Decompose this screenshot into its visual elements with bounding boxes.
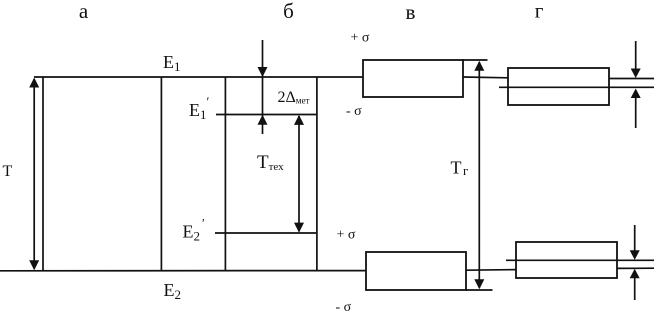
dimension arrow T-g (double-headed, tall, x=479) [474, 61, 484, 289]
rectangle zone v bottom (-sigma band) [366, 252, 466, 290]
svg-text:б: б [283, 0, 294, 23]
wire bottom line E2 level (between rect v-bottom and rect g-bottom) [466, 269, 516, 272]
wire top line E1 level (between rect v-top and rect g-top) [463, 76, 508, 79]
svg-text:а: а [79, 0, 89, 23]
wire top line E1 level (left span) [34, 76, 363, 78]
dimension arrow T (double-headed, left) [29, 78, 39, 271]
wire vertical divider x=161 (right edge of zone a) [160, 77, 162, 271]
wire extension of bottom edge of zone v bottom rect [466, 289, 493, 291]
wire bottom line E2 level (right of rect g-bottom) [617, 267, 654, 269]
wire E2' level line [215, 232, 316, 234]
wire E1' level line [216, 114, 317, 116]
dimension arrow T-tech (double-headed, between E1' and E2') [294, 115, 304, 233]
rectangle zone g top (shifted part field) [508, 68, 609, 105]
rectangle zone g bottom (shifted part field) [516, 242, 617, 278]
dimension arrows 2-delta-met (down onto E1 line, up onto E1' line) [258, 40, 268, 134]
wire top line E1 level (right of rect g-top) [609, 78, 654, 80]
wire middle line through zone g top rect [499, 86, 654, 88]
svg-text:+ σ: + σ [337, 228, 356, 243]
svg-text:г: г [535, 0, 544, 23]
wire vertical divider x=43 (left edge of zone a) [42, 77, 44, 271]
wire vertical divider x=317 (right edge of zone b) [316, 77, 318, 271]
dimension arrows top right gap (down then up facing) [631, 41, 641, 128]
rectangle zone v top (+sigma band) [363, 60, 463, 97]
svg-text:- σ: - σ [346, 104, 362, 119]
svg-text:- σ: - σ [336, 300, 352, 315]
wire bottom line E2 level (left span) [0, 270, 366, 272]
wire extension of top edge of zone v top rect [463, 59, 488, 61]
svg-text:+ σ: + σ [351, 31, 370, 46]
dimension arrows bottom right gap (down then up facing) [630, 225, 640, 300]
svg-text:в: в [406, 0, 416, 24]
wire middle line through zone g bottom rect [506, 259, 654, 261]
svg-text:T: T [3, 163, 13, 180]
wire vertical divider x=225 (left edge of zone b) [224, 77, 226, 271]
